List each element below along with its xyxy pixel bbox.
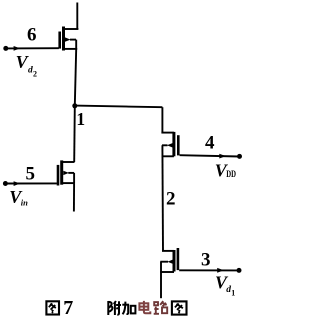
- source stub: [64, 48, 78, 50]
- source stub: [162, 155, 174, 157]
- bulk arrow: [63, 171, 69, 175]
- caption 加: [122, 302, 135, 315]
- wire M3 bulk/source rail down: [160, 262, 162, 299]
- gate bar: [57, 165, 60, 186]
- arrow on lead 6: [14, 46, 21, 51]
- bulk arrow: [167, 143, 173, 147]
- transistor M6 (top-left): [60, 27, 79, 51]
- transistor M4 (right, mirrored): [161, 132, 178, 156]
- svg-text:1: 1: [231, 289, 235, 298]
- wire M4 bulk/source rail down to M3 drain (node 2): [161, 145, 164, 251]
- caption 图 (second): [172, 301, 187, 314]
- drain stub: [161, 132, 174, 134]
- source stub: [160, 271, 174, 273]
- svg-text:2: 2: [33, 69, 37, 78]
- node 1 junction dot: [72, 103, 77, 108]
- wire down to M4 drain: [161, 107, 163, 132]
- terminal dot VDD: [237, 154, 242, 159]
- svg-text:3: 3: [201, 250, 211, 271]
- arrow on lead 5: [14, 181, 21, 186]
- caption 路: [154, 301, 168, 314]
- svg-text:2: 2: [166, 189, 176, 210]
- wire M6 source/bulk down to node 1: [75, 40, 77, 49]
- transistor M3 (bottom-right, mirrored): [160, 248, 178, 272]
- svg-text:in: in: [21, 197, 28, 207]
- wire M6 drain to top edge: [76, 3, 78, 30]
- drain stub: [64, 28, 79, 30]
- svg-text:4: 4: [205, 133, 215, 154]
- svg-text:7: 7: [63, 297, 73, 319]
- wire M5 source/bulk rail down: [73, 173, 75, 183]
- wire gate lead terminal 4: [180, 155, 240, 156]
- terminal dot Vd1: [237, 268, 242, 273]
- gate bar: [177, 248, 180, 270]
- channel bar: [62, 27, 65, 51]
- caption 图 (first): [46, 301, 59, 314]
- terminal dot Vin: [3, 181, 8, 186]
- caption 电: [139, 301, 150, 313]
- bulk arrow: [65, 37, 71, 41]
- wire input lead terminal 5: [5, 182, 57, 184]
- svg-text:1: 1: [76, 109, 85, 129]
- transistor M5 (mid-left): [58, 160, 75, 185]
- source stub: [62, 182, 75, 184]
- arrow on lead 3: [217, 268, 224, 273]
- channel bar: [172, 132, 175, 156]
- wire node 1 horizontal: [75, 106, 163, 108]
- channel bar: [60, 160, 63, 184]
- wire gate lead terminal 3: [179, 269, 239, 271]
- wire input lead terminal 6: [6, 47, 59, 49]
- terminal dot Vd2: [3, 46, 8, 51]
- channel bar: [173, 250, 176, 272]
- gate bar: [58, 32, 61, 49]
- caption 附: [108, 301, 121, 315]
- svg-text:6: 6: [27, 25, 37, 46]
- svg-text:5: 5: [26, 164, 36, 185]
- drain stub: [62, 161, 75, 163]
- svg-text:DD: DD: [226, 169, 236, 179]
- drain stub: [162, 250, 174, 252]
- bulk arrow: [167, 260, 173, 264]
- arrow on lead 4: [219, 154, 226, 159]
- wire node 1 down to M5 drain: [73, 106, 76, 162]
- gate bar: [177, 135, 180, 155]
